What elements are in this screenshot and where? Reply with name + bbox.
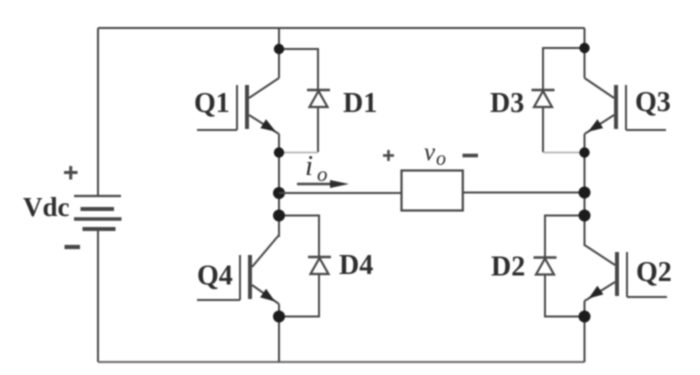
wire D4 branch top [279,216,319,258]
wire left leg middle [278,134,280,237]
diode D4 [308,257,331,274]
svg-text:Q3: Q3 [635,87,671,118]
wire left bus lower [97,229,99,362]
wire D3 rejoin (light) [543,152,585,154]
svg-text:Q1: Q1 [194,88,230,119]
current arrow io [297,180,349,188]
node right leg D2 tap [579,210,591,222]
load resistor box [402,171,463,211]
wire D1 branch top [279,49,318,90]
wire D3 branch top [543,48,585,90]
wire D1 rejoin (light) [279,152,318,154]
wire right leg collector Q3 [584,28,586,78]
svg-text:D1: D1 [343,88,377,119]
wire D4 branch bottom [279,274,319,317]
wire left leg emitter Q4 [278,304,280,362]
wire bottom rail [98,361,585,363]
transistor Q3 (IGBT) [585,78,667,134]
wire D3 branch bottom [542,107,544,152]
label io current [305,150,328,186]
svg-text:D3: D3 [490,88,524,119]
transistor Q2 (IGBT) [585,245,668,301]
wire D2 branch bottom [545,275,585,317]
minus sign of Vdc [65,245,81,249]
battery Vdc [74,196,122,229]
node left leg D4 tap [273,210,285,222]
diode D2 [534,258,557,275]
node right leg D2 rejoin [579,311,591,323]
svg-text:D4: D4 [339,250,373,281]
wire top rail [98,27,585,29]
diode D3 [532,90,555,107]
wire D1 branch bottom [317,107,319,152]
minus sign of vo [463,154,479,158]
wire right leg middle [584,134,586,246]
label vo [424,139,446,170]
wire load left [279,192,402,194]
wire D2 branch top [545,216,585,258]
node left leg D1 tap [274,44,284,54]
svg-text:i: i [305,150,313,182]
transistor Q1 (IGBT) [197,78,279,134]
wire load right [463,192,585,194]
node left leg D4 rejoin [273,311,285,323]
wire right leg emitter Q2 [584,301,586,362]
wire left leg collector Q1 [278,28,280,78]
node right leg load tap [579,187,591,199]
plus sign of Vdc [64,166,78,180]
node left leg load tap [273,187,285,199]
transistor Q4 (IGBT) [197,235,279,304]
diode D1 [307,90,330,107]
plus sign of vo [383,150,394,161]
node left leg D1 rejoin [274,147,284,157]
svg-text:Q4: Q4 [197,261,233,292]
node right leg D3 tap [579,43,589,53]
svg-text:o: o [436,148,446,170]
node right leg D3 rejoin [579,147,589,157]
svg-text:D2: D2 [491,252,525,283]
wire left bus upper [97,28,99,196]
svg-text:Vdc: Vdc [23,192,70,222]
svg-text:o: o [317,162,328,186]
svg-text:v: v [424,139,436,166]
svg-text:Q2: Q2 [636,257,672,288]
